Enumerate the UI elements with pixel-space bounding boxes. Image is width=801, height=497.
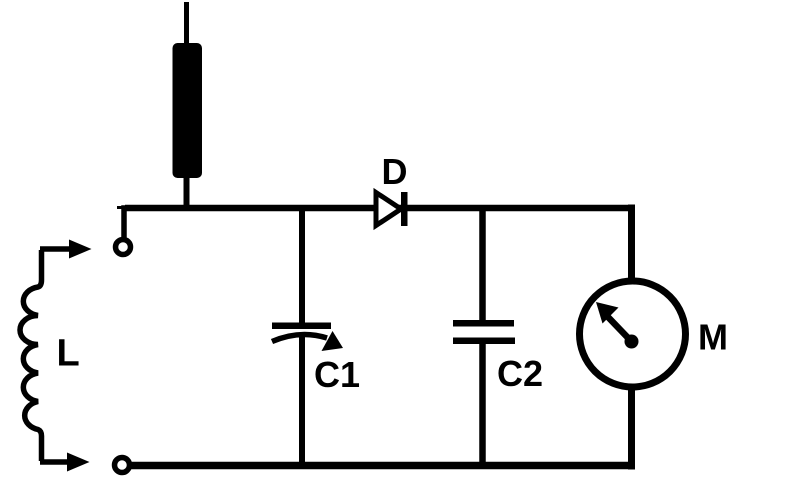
wire bottom horizontal [131, 462, 632, 470]
capacitor C1 (variable) [272, 323, 343, 352]
svg-text:L: L [57, 333, 80, 375]
wire C2 branch lower [479, 340, 486, 466]
svg-text:C1: C1 [314, 354, 360, 395]
wire C1 branch lower [299, 336, 305, 466]
coupling arrow top [40, 240, 92, 259]
wire top-left drop to terminal [117, 206, 122, 209]
wire C2 branch upper [479, 208, 486, 322]
svg-text:C2: C2 [497, 353, 543, 394]
wire C1 branch upper [299, 208, 305, 326]
svg-text:M: M [698, 317, 728, 358]
terminal bottom [115, 458, 130, 473]
wire top horizontal [125, 205, 632, 212]
inductor L [20, 250, 42, 461]
meter M [580, 281, 686, 387]
capacitor C2 [453, 320, 515, 344]
wire right vertical upper [628, 208, 632, 282]
diode D [376, 192, 408, 226]
terminal top [116, 240, 131, 255]
coupling arrow bottom [40, 453, 90, 472]
antenna [173, 2, 203, 210]
svg-text:D: D [382, 151, 408, 192]
wire right vertical lower [628, 387, 632, 466]
